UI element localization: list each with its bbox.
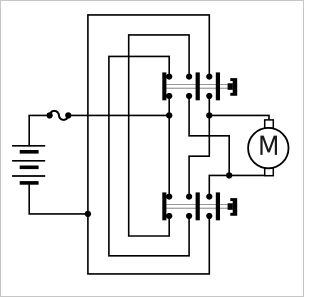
junction node battery negative [85, 211, 91, 217]
wire inner loop: top S1 left contact to bottom S2 middle contact [109, 56, 189, 255]
S2 left contacts [166, 194, 172, 200]
pushbutton S1 (top, triple-pole) [162, 72, 237, 100]
wire battery negative to outer loop [29, 185, 88, 214]
S1 bridge bar middle [196, 72, 200, 100]
S1 actuator cap [230, 78, 237, 96]
wire crossover: S1 middle contact down to motor bottom node [189, 96, 229, 175]
S2 actuator stub [228, 203, 233, 210]
wire S2 right contact up to motor bottom terminal [209, 175, 269, 196]
fuse F1 [46, 111, 71, 120]
S1 left contacts [166, 74, 172, 80]
S2 middle contacts [186, 194, 192, 200]
motor M1 [248, 120, 288, 176]
S2 linkage lines [166, 205, 227, 209]
wire outer loop: battery negative net (top S1 right contact to bottom S2 right contact) [88, 15, 209, 274]
S1 bridge bar left [162, 72, 166, 100]
wire fuse output to node V+ [68, 114, 169, 116]
wire crossover: motor top node down to S2 middle contact [189, 115, 209, 196]
M1 bottom terminal [265, 168, 274, 176]
wire battery positive to fuse [29, 115, 49, 145]
S2 bridge bar left [162, 192, 166, 220]
S2 right contacts [206, 194, 212, 200]
S1 middle contacts [186, 74, 192, 80]
battery BT1 (3 cells) [12, 146, 45, 185]
wire middle loop: top S1 middle contact to bottom S2 left contact [129, 35, 189, 236]
M1 letter M [260, 136, 277, 155]
M1 top terminal [265, 120, 274, 128]
S1 actuator stub [228, 83, 233, 90]
junction node motor top [206, 112, 212, 118]
S2 actuator cap [230, 198, 237, 216]
S2 bridge bar middle [196, 192, 200, 220]
wire motor top terminal feed [209, 96, 269, 120]
wire positive rail vertical S1 to S2 [168, 96, 170, 197]
pushbutton S2 (bottom, triple-pole) [162, 192, 237, 220]
junction node motor bottom [226, 172, 232, 178]
S2 bridge bar right [216, 192, 220, 220]
S1 bridge bar right [216, 72, 220, 100]
S1 linkage lines [166, 85, 227, 89]
junction node V+ (fuse to switches) [166, 112, 172, 118]
M1 body circle [248, 128, 288, 168]
S1 right contacts [206, 74, 212, 80]
